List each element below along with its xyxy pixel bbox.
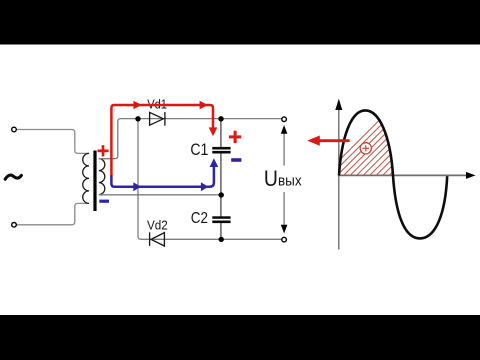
- capacitor C2: [212, 216, 230, 223]
- svg-text:вых: вых: [278, 172, 302, 189]
- svg-text:U: U: [264, 166, 278, 191]
- polarity minus at secondary: [99, 200, 109, 203]
- red arrow from half-wave to circuit: [318, 139, 350, 142]
- transformer T1 core: [93, 151, 96, 212]
- wire secondary bottom to node C: [99, 194, 221, 196]
- junction node C: [219, 192, 224, 197]
- sine wave: [339, 110, 447, 238]
- wire C2 to node D: [220, 223, 222, 240]
- polarity minus at C1: [231, 158, 241, 162]
- junction node D: [219, 237, 224, 242]
- wire input bottom: [16, 203, 89, 224]
- transformer T1 primary winding: [83, 153, 89, 203]
- terminal output top: [282, 117, 287, 122]
- plot vertical axis: [338, 108, 340, 250]
- junction node A: [135, 116, 140, 121]
- plot vertical axis arrowhead: [335, 99, 342, 110]
- blue path arrowhead 2: [201, 182, 208, 191]
- transformer T1 secondary winding: [99, 159, 105, 195]
- Uvyh measure arrowheads: [281, 125, 288, 234]
- red path arrowhead 2: [200, 101, 208, 109]
- plot horizontal axis arrowhead: [466, 172, 476, 179]
- polarity plus at secondary: [98, 145, 109, 156]
- diode Vd1: [150, 112, 165, 126]
- terminal output bottom: [282, 237, 287, 242]
- blue path arrowhead into C1: [210, 158, 219, 167]
- red path arrowhead into C1: [209, 127, 218, 136]
- capacitor C1: [212, 147, 230, 154]
- svg-text:C2: C2: [191, 210, 208, 227]
- blue path arrowhead 1: [133, 182, 141, 191]
- junction node B: [218, 116, 223, 121]
- wire C1 to C2: [220, 153, 222, 217]
- terminal input top: [12, 127, 17, 132]
- plot horizontal axis: [339, 174, 468, 176]
- svg-text:C1: C1: [190, 140, 208, 159]
- Uvyh measure line: [283, 133, 285, 226]
- diode Vd2: [150, 232, 165, 246]
- svg-text:Vd2: Vd2: [147, 218, 168, 233]
- circled plus on half-wave: [360, 143, 371, 154]
- red path arrowhead 1: [133, 101, 141, 109]
- wire input top: [16, 130, 89, 154]
- blue return path: [111, 167, 213, 187]
- terminal input bottom: [12, 223, 17, 228]
- red current path positive half-cycle: [111, 105, 213, 176]
- AC source symbol ~: [5, 175, 21, 179]
- wire secondary top to diode row: [99, 119, 282, 159]
- wire node A down to Vd2: [138, 119, 282, 240]
- polarity plus at C1: [229, 131, 241, 143]
- wire node B down to C1: [220, 119, 222, 147]
